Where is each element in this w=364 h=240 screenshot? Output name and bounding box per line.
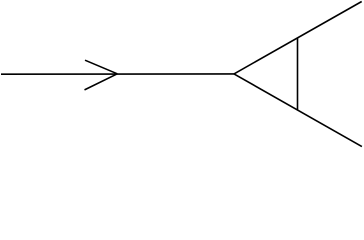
wire arrow shaft [1,73,234,75]
top diagonal edge [234,2,362,74]
arrowhead [85,60,118,90]
bottom diagonal edge [234,74,362,147]
vertical edge [297,38,299,110]
